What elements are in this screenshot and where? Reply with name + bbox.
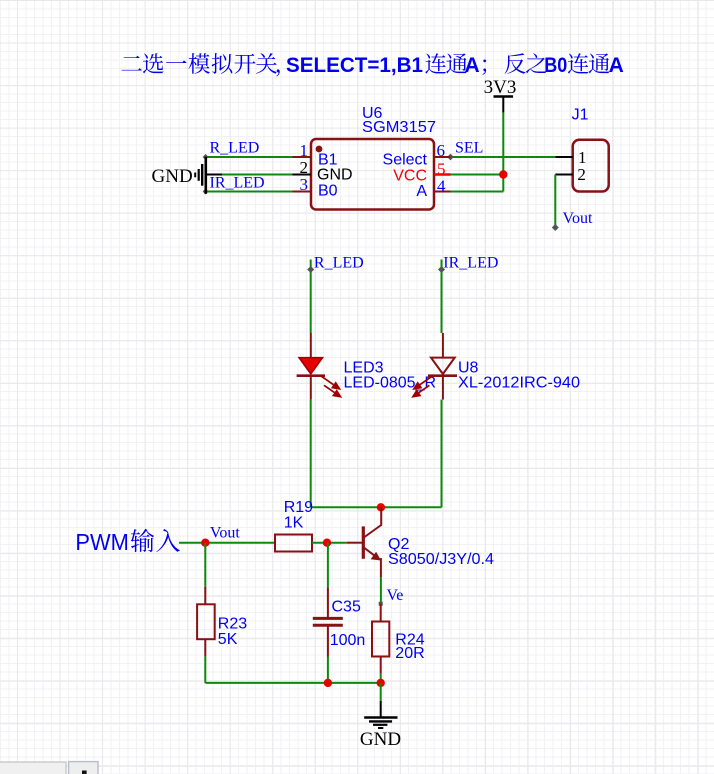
svg-text:6: 6 bbox=[437, 141, 446, 160]
wire C35 to bottom rail bbox=[327, 657, 329, 683]
node Ve label anchor bbox=[379, 602, 383, 606]
U6 pin 1 bbox=[293, 156, 312, 158]
UI status box left bbox=[0, 762, 66, 774]
svg-text:A: A bbox=[465, 54, 480, 77]
svg-text:J1: J1 bbox=[572, 107, 589, 124]
svg-text:B0: B0 bbox=[318, 183, 338, 200]
junction R24/rail bbox=[377, 679, 385, 687]
svg-text:20R: 20R bbox=[395, 645, 424, 662]
wire IR_LED down to U8 bbox=[441, 260, 443, 334]
node R_LED label anchor bbox=[307, 266, 314, 273]
svg-text:A: A bbox=[609, 54, 624, 77]
svg-text:R23: R23 bbox=[218, 616, 247, 633]
junction base/C35 node bbox=[323, 539, 331, 547]
UI cursor box bbox=[69, 762, 98, 774]
wire GND black segment bbox=[206, 174, 222, 176]
svg-text:PWM: PWM bbox=[75, 529, 128, 555]
resistor R19 bbox=[275, 535, 312, 552]
diode U8 (IR LED) bbox=[413, 333, 457, 400]
wire R23 to bottom rail bbox=[204, 656, 206, 683]
wire GND green segment (to U6 pin2) bbox=[222, 174, 293, 176]
wire IR_LED (to U6 pin3) bbox=[206, 191, 293, 193]
svg-text:3: 3 bbox=[300, 175, 309, 194]
svg-text:B0: B0 bbox=[544, 54, 567, 77]
J1 pin 2 bbox=[555, 174, 573, 176]
junction VCC/3V3 node bbox=[499, 170, 507, 178]
svg-text:Ve: Ve bbox=[387, 587, 404, 604]
junction collector node bbox=[377, 503, 385, 511]
transistor Q2 NPN bbox=[347, 507, 382, 577]
UI cursor mark bbox=[82, 771, 87, 774]
svg-text:GND: GND bbox=[317, 167, 353, 184]
wire R_LED down to LED3 bbox=[310, 260, 312, 334]
wire Vout from J1 pin2 bbox=[554, 175, 556, 228]
U6 pin 6 bbox=[434, 156, 451, 158]
wire A (U6 pin4 up to VCC node) bbox=[451, 191, 504, 193]
svg-text:Vout: Vout bbox=[563, 210, 593, 227]
svg-text:Vout: Vout bbox=[210, 525, 240, 542]
wire U8 cathode down bbox=[441, 400, 443, 508]
wire base node down to C35 bbox=[327, 543, 329, 588]
resistor R23 bbox=[197, 587, 215, 657]
ground symbol (bottom) bbox=[360, 701, 401, 750]
wire SEL net (U6 pin6 to J1 pin1) bbox=[451, 156, 556, 158]
net label PWM input (Chinese) bbox=[75, 529, 180, 555]
wire Vout node down to R23 bbox=[204, 543, 206, 587]
svg-text:R19: R19 bbox=[284, 499, 313, 516]
node IR_LED label anchor bbox=[438, 266, 445, 273]
connector J1 body bbox=[573, 140, 609, 192]
diode LED3 (red LED) bbox=[297, 333, 341, 400]
node Vout wire end bbox=[552, 224, 559, 231]
U6 pin 2 bbox=[293, 174, 312, 176]
power symbol 3V3 bbox=[484, 77, 517, 113]
svg-text:5K: 5K bbox=[218, 631, 238, 648]
node R_LED wire end bbox=[203, 154, 209, 160]
svg-text:3V3: 3V3 bbox=[484, 77, 517, 98]
svg-text:R_LED: R_LED bbox=[314, 255, 364, 272]
svg-text:4: 4 bbox=[437, 177, 446, 196]
junction C35/rail bbox=[324, 679, 332, 687]
wire R24 to bottom rail bbox=[380, 674, 382, 683]
junction Vout node bbox=[201, 539, 209, 547]
svg-text:A: A bbox=[416, 183, 427, 200]
wire 3V3 to VCC/A bbox=[502, 113, 504, 192]
svg-text:VCC: VCC bbox=[393, 168, 427, 185]
svg-text:SGM3157: SGM3157 bbox=[362, 119, 436, 136]
wire bottom rail bbox=[205, 682, 380, 684]
wire rail down to GND bbox=[380, 683, 382, 701]
schematic title (Chinese) bbox=[122, 53, 624, 77]
wire emitter to R24 bbox=[380, 577, 382, 604]
U6 pin 4 bbox=[434, 191, 451, 193]
node SEL wire end marker bbox=[447, 154, 454, 161]
wire LED3 cathode down bbox=[310, 400, 312, 508]
node IR_LED wire end bbox=[203, 189, 209, 195]
svg-text:IR_LED: IR_LED bbox=[443, 255, 498, 272]
wire VCC (U6 pin5 to 3V3) bbox=[451, 174, 504, 176]
U6 pin 3 bbox=[293, 191, 312, 193]
resistor R24 bbox=[372, 604, 389, 674]
wire R19 to Q2 base bbox=[312, 542, 347, 544]
svg-text:1K: 1K bbox=[284, 515, 304, 532]
wire PWM to R19 bbox=[179, 542, 275, 544]
ground symbol (left, rotated) bbox=[152, 157, 206, 194]
svg-text:IR_LED: IR_LED bbox=[210, 175, 265, 192]
svg-text:2: 2 bbox=[577, 165, 586, 184]
capacitor C35 bbox=[313, 587, 343, 656]
svg-text:XL-2012IRC-940: XL-2012IRC-940 bbox=[458, 375, 580, 392]
svg-text:Select: Select bbox=[383, 152, 428, 169]
svg-text:R_LED: R_LED bbox=[210, 140, 260, 157]
svg-text:SELECT=1,B1: SELECT=1,B1 bbox=[286, 54, 423, 77]
svg-text:C35: C35 bbox=[332, 599, 361, 616]
svg-text:SEL: SEL bbox=[455, 140, 483, 157]
op-amp U6 SGM3157 analog switch body bbox=[311, 139, 434, 210]
U6 pin1 orientation dot bbox=[316, 146, 323, 153]
svg-text:GND: GND bbox=[360, 729, 401, 750]
svg-text:100n: 100n bbox=[330, 632, 366, 649]
wire R_LED (to U6 pin1) bbox=[206, 156, 293, 158]
wire collector rail bbox=[311, 506, 442, 508]
svg-text:GND: GND bbox=[152, 166, 193, 187]
J1 pin 1 bbox=[555, 156, 573, 158]
U6 pin 5 bbox=[434, 173, 451, 176]
svg-text:S8050/J3Y/0.4: S8050/J3Y/0.4 bbox=[388, 551, 494, 568]
